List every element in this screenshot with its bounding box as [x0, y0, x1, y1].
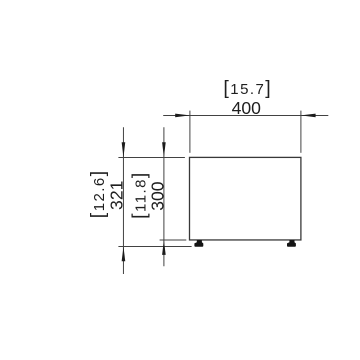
svg-text:321: 321 [107, 181, 127, 210]
svg-text:[15.7]: [15.7] [223, 77, 272, 99]
svg-text:400: 400 [232, 98, 262, 118]
svg-text:300: 300 [147, 181, 167, 211]
